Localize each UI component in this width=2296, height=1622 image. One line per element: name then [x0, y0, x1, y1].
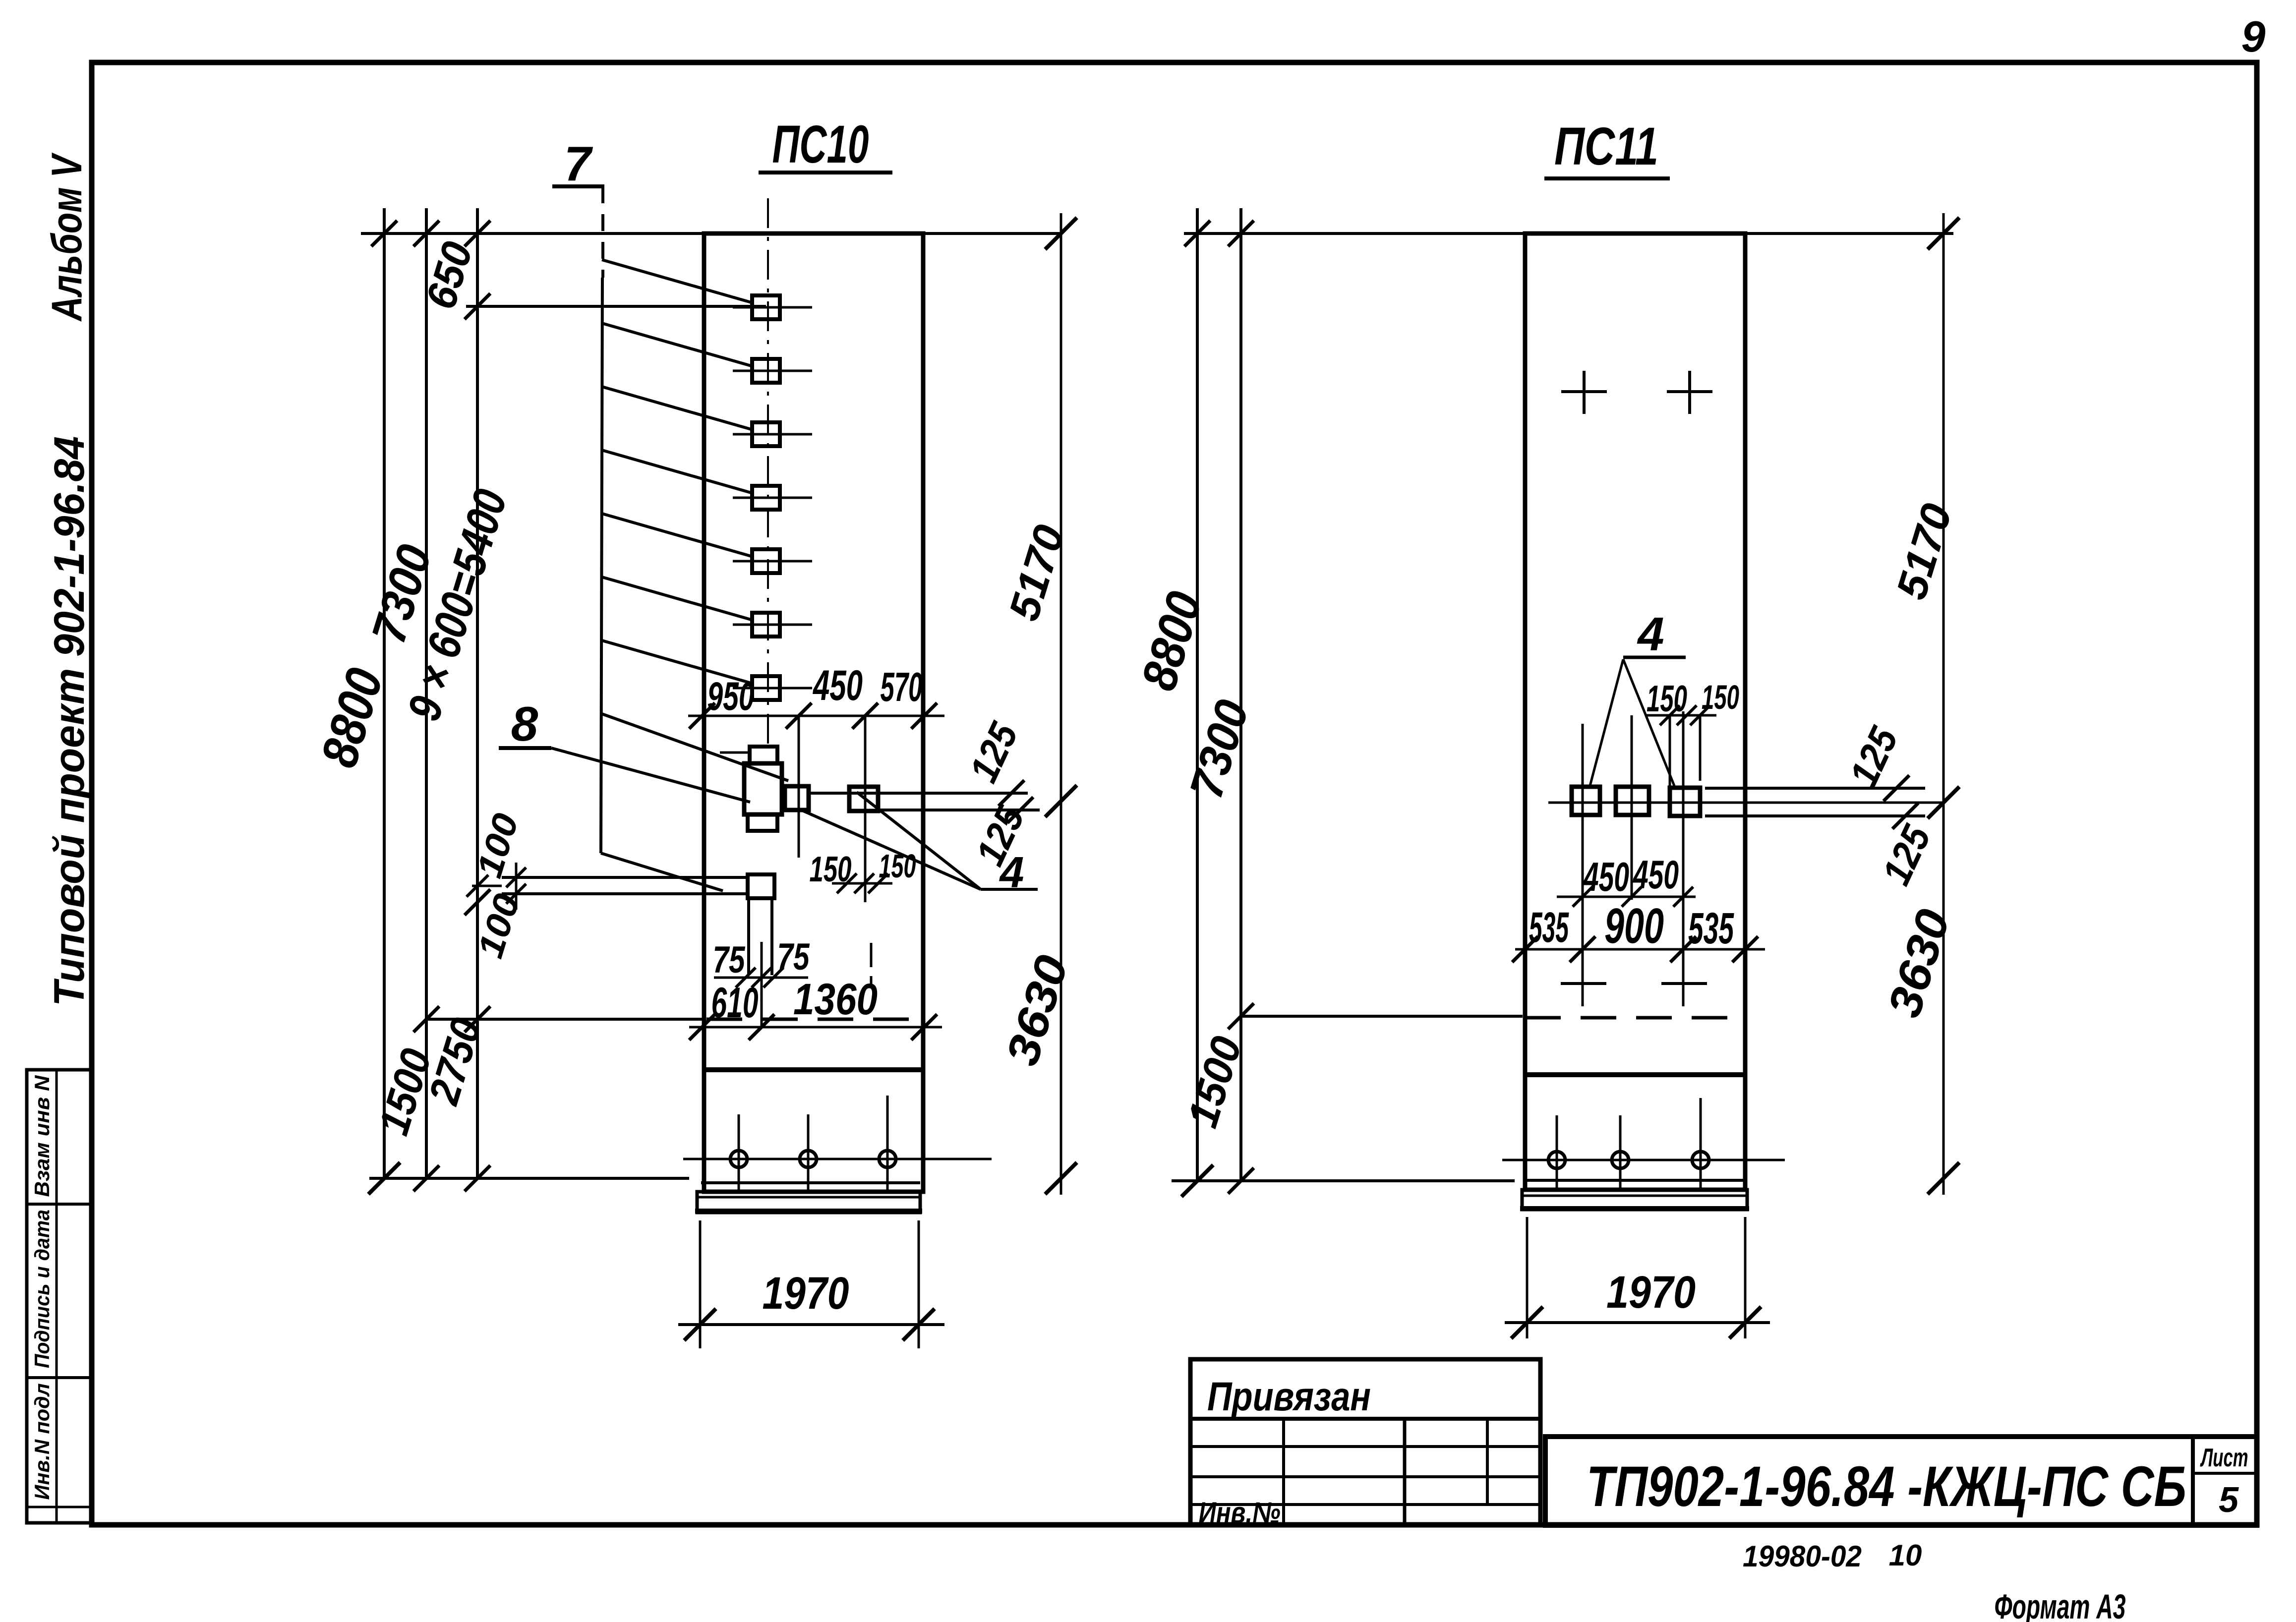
100 dim ticks — [515, 863, 518, 910]
svg-text:19980-02: 19980-02 — [1743, 1540, 1862, 1573]
150/150 dim PC10 — [832, 882, 892, 885]
svg-text:7: 7 — [564, 136, 593, 191]
svg-text:570: 570 — [881, 664, 923, 710]
leader diagonal to console — [601, 853, 723, 891]
PC10 top dimension line — [361, 232, 1061, 235]
PC10 dashed line (ground level) — [706, 1018, 923, 1021]
anchor square A2 — [849, 787, 878, 811]
ticks bottom level PC10 — [368, 1162, 400, 1194]
svg-text:Формат А3: Формат А3 — [1995, 1587, 2126, 1622]
leader 8 to assembly — [551, 748, 750, 802]
title block small table — [1190, 1359, 1540, 1525]
leader diagonal to plate 6 — [602, 577, 751, 620]
PC11 anchor squares — [1572, 787, 1600, 815]
svg-text:1360: 1360 — [793, 974, 878, 1024]
svg-text:ТП902-1-96.84 -КЖЦ-ПС СБ: ТП902-1-96.84 -КЖЦ-ПС СБ — [1587, 1455, 2186, 1518]
PC11 dim line 7300 — [1239, 208, 1242, 1181]
125 pair lines PC10 — [809, 792, 1028, 795]
ticks 2750 level — [413, 1006, 439, 1032]
PC11 base — [1525, 1179, 1745, 1182]
svg-text:9: 9 — [2241, 12, 2266, 61]
svg-text:4: 4 — [999, 848, 1024, 897]
leader diagonal to plate 5 — [602, 514, 751, 556]
PC11 bottom dim level line — [1172, 1179, 1515, 1182]
svg-text:1970: 1970 — [1606, 1267, 1696, 1318]
PC11 top dimension line — [1184, 232, 1953, 235]
PC10 dim chain line 650 / 9x600 — [476, 208, 479, 1178]
svg-text:4: 4 — [1637, 608, 1664, 661]
extension verticals PC11 squares — [1582, 724, 1584, 1006]
console plate — [748, 874, 774, 898]
svg-text:10: 10 — [1889, 1539, 1922, 1572]
leader 4 PC10 — [801, 810, 981, 889]
embed plate 2 — [733, 370, 812, 372]
svg-text:150: 150 — [810, 850, 852, 889]
embed plate 6 — [733, 624, 812, 626]
PC11 center line through squares — [1548, 802, 1943, 804]
leader diagonal to plate assembly — [602, 714, 788, 781]
svg-text:Взам инв N: Взам инв N — [30, 1075, 54, 1197]
PC11 1500 level line — [1241, 1015, 1523, 1018]
tick 650 level — [465, 293, 490, 319]
125 pair lines PC11 — [1705, 787, 1925, 790]
150/150 dim PC11 — [1646, 714, 1716, 717]
svg-text:75: 75 — [777, 936, 810, 978]
PC10 panel outline — [704, 233, 923, 1192]
svg-text:Типовой проект 902-1-96.84: Типовой проект 902-1-96.84 — [46, 436, 93, 1006]
svg-text:ПС10: ПС10 — [772, 114, 869, 174]
svg-text:Подпись и дата: Подпись и дата — [30, 1210, 54, 1368]
svg-text:450: 450 — [1583, 854, 1629, 900]
svg-text:Альбом V: Альбом V — [43, 152, 91, 322]
embed plate 5 — [733, 560, 812, 563]
svg-text:8: 8 — [511, 696, 538, 751]
svg-text:75: 75 — [713, 939, 746, 981]
PC11 anchor circles — [1502, 1159, 1785, 1161]
svg-text:535: 535 — [1529, 904, 1569, 951]
950/450/570 dim line — [688, 715, 944, 717]
PC10 bottom dim level line — [369, 1177, 689, 1180]
tick 5400 end — [465, 889, 490, 915]
PC11 top cross marks — [1561, 390, 1607, 393]
535/900/535 dim PC11 — [1515, 948, 1765, 951]
svg-text:900: 900 — [1604, 898, 1664, 954]
450/450 dim PC11 — [1557, 896, 1696, 898]
left stamp table — [27, 1070, 91, 1523]
svg-text:ПС11: ПС11 — [1554, 116, 1658, 176]
svg-text:150: 150 — [1647, 678, 1687, 719]
PC10 dim line 8800 — [383, 208, 386, 1178]
PC11 lower section line — [1525, 1072, 1745, 1077]
ticks on PC10 top dim line — [371, 221, 397, 246]
2750 level line — [425, 1018, 704, 1021]
svg-text:450: 450 — [1633, 853, 1679, 897]
PC11 panel outline — [1525, 233, 1745, 1190]
console bracket lines — [502, 876, 748, 879]
svg-text:5: 5 — [2219, 1480, 2239, 1520]
embed plate 4 — [733, 497, 812, 499]
PC10 base — [701, 1181, 920, 1184]
PC10 lower section line — [704, 1067, 923, 1072]
leader diagonal to plate 2 — [602, 323, 751, 366]
PC11 dim line 8800 — [1196, 208, 1199, 1181]
svg-text:450: 450 — [813, 662, 863, 709]
PC11 dashed line — [1525, 1016, 1745, 1020]
610/1360 dim — [689, 1026, 942, 1029]
75/75 dim — [714, 977, 808, 979]
650 level line — [466, 305, 766, 308]
svg-text:950: 950 — [707, 674, 755, 719]
leader diagonal to plate 4 — [602, 450, 751, 493]
anchor square A1 — [785, 786, 809, 810]
svg-text:Инв.N подл: Инв.N подл — [30, 1384, 54, 1500]
PC11 1970 dim — [1526, 1217, 1529, 1338]
PC10 5170/3630 dim line — [1060, 213, 1062, 1195]
embed plate 1 — [733, 306, 812, 309]
hatch leader vertical line — [601, 186, 604, 278]
svg-text:150: 150 — [1702, 678, 1739, 716]
leader diagonal to plate 7 — [602, 640, 751, 683]
plate assembly (window box) — [750, 747, 777, 763]
PC11 bottom cross marks — [1561, 982, 1606, 985]
leader diagonal to plate 1 — [602, 260, 751, 302]
leader diagonal to plate 3 — [602, 387, 751, 429]
svg-text:1970: 1970 — [763, 1268, 849, 1319]
PC10 dim line 7300 — [425, 208, 428, 1178]
PC10 panel center line — [767, 198, 769, 745]
svg-text:Инв.№: Инв.№ — [1199, 1496, 1281, 1529]
PC10 1970 dim — [699, 1220, 702, 1348]
PC10 anchor circles — [683, 1158, 992, 1160]
svg-text:Лист: Лист — [2200, 1444, 2248, 1472]
embed plate 3 — [733, 433, 812, 436]
PC11 5170/3630 dim line — [1943, 213, 1945, 1195]
svg-text:535: 535 — [1688, 903, 1734, 953]
embed plate 7 — [733, 687, 812, 690]
main title bar — [1545, 1437, 2257, 1525]
svg-text:Привязан: Привязан — [1207, 1374, 1371, 1419]
